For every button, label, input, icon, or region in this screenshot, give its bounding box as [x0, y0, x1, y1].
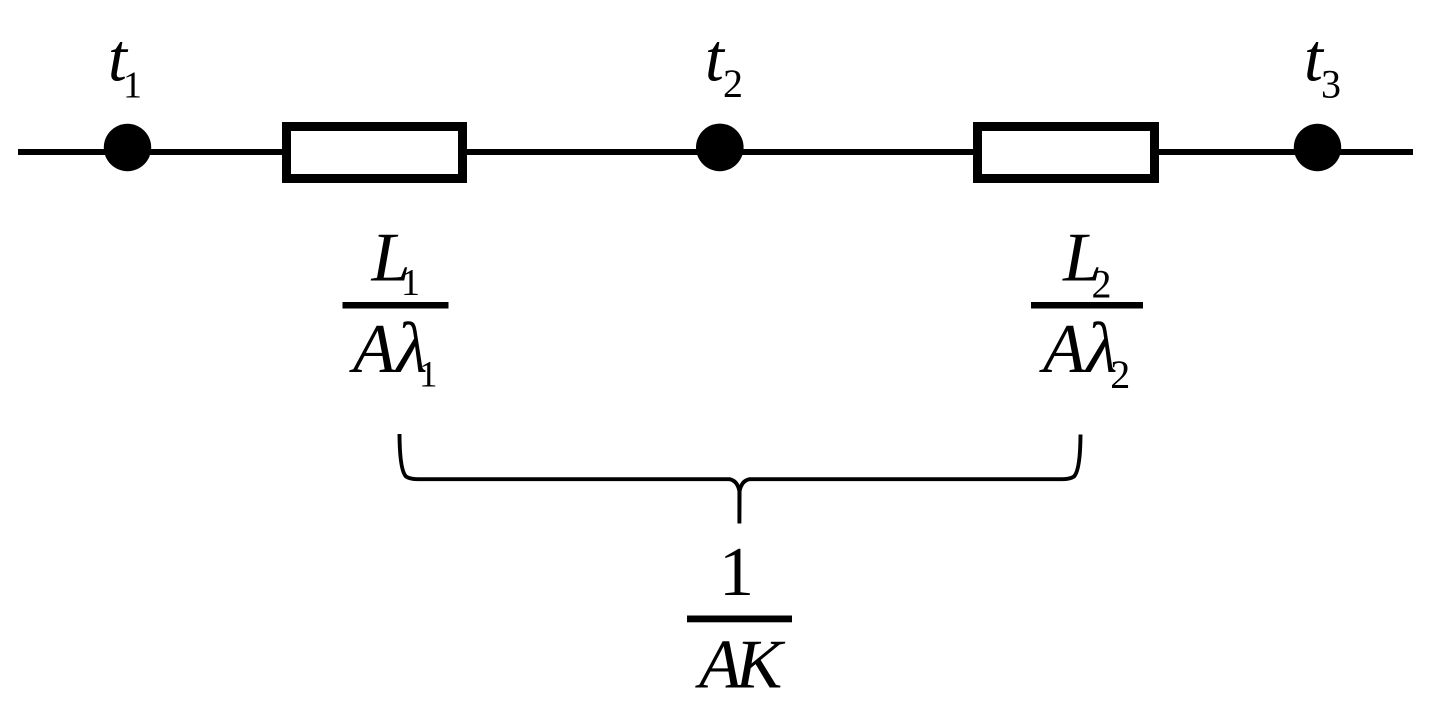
wire segment left lead (t1 to resistor R1): [18, 149, 282, 155]
value label R1 numerator L1: [371, 219, 421, 304]
fraction bar of total resistance label: [687, 616, 792, 623]
svg-text:3: 3: [1321, 62, 1341, 107]
total resistance label denominator AK: [695, 627, 786, 704]
svg-text:A: A: [349, 311, 396, 388]
node t1 (junction dot): [104, 124, 151, 171]
value label R2 numerator L2: [1062, 219, 1112, 306]
wire segment middle (R1 to R2 through node t2): [467, 149, 973, 155]
svg-text:1: 1: [419, 355, 438, 396]
total resistance label numerator 1: [719, 534, 754, 611]
svg-text:2: 2: [723, 61, 743, 106]
value label R1 denominator A lambda 1: [349, 308, 438, 396]
node label t3: [1304, 20, 1341, 107]
node label t2: [705, 20, 743, 107]
resistor R2 (conduction resistance of layer 2): [978, 127, 1155, 179]
resistor R1 (conduction resistance of layer 1): [287, 127, 463, 179]
node t2 (junction dot): [696, 124, 744, 172]
wire segment right lead (R2 to t3): [1159, 149, 1413, 155]
svg-text:1: 1: [719, 534, 754, 611]
brace (underbrace grouping R1 and R2 as total resistance): [400, 434, 1081, 524]
svg-text:A: A: [1039, 311, 1086, 388]
svg-text:K: K: [735, 627, 786, 704]
fraction bar of R1 value: [343, 302, 449, 309]
svg-text:2: 2: [1110, 352, 1130, 397]
node label t1: [108, 20, 142, 107]
svg-text:1: 1: [401, 262, 420, 304]
value label R2 denominator A lambda 2: [1039, 308, 1130, 397]
svg-text:1: 1: [123, 65, 142, 107]
fraction bar of R2 value: [1031, 302, 1143, 309]
svg-text:2: 2: [1092, 262, 1112, 307]
node t3 (junction dot): [1294, 124, 1341, 171]
